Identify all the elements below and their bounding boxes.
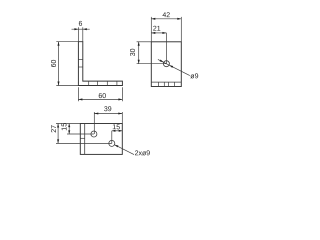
dim 6: left arrow (outside, points right) [74,28,78,30]
dim 30: extension line (bottom, through hole centre) [137,63,167,65]
svg-text:30: 30 [130,48,137,56]
rib tick (horizontal leg) [116,81,118,85]
dim 21: right arrow [162,32,166,34]
leader 2xø9: line [114,145,134,155]
dim 27: extension line (bottom, through right hole centre) [56,142,112,144]
svg-text:42: 42 [162,12,170,19]
svg-text:60: 60 [51,60,58,68]
svg-text:15: 15 [61,123,68,131]
dim 27: dimension line [57,124,59,144]
rib tick (horizontal leg) [88,81,90,85]
dim 6: extension lines [77,27,79,41]
dim 39: right arrow [118,112,122,114]
svg-text:15: 15 [112,124,120,131]
svg-text:27: 27 [51,125,58,133]
dim 15 (left): bottom arrow [68,130,70,134]
dim 15 (left): extension line through left hole [67,133,94,135]
leader ø9 (front): line through hole [158,59,190,75]
leader ø9: lower-right arrow [169,65,173,68]
dim 42: right arrow [177,18,181,20]
dim 60 (bottom): left arrow [78,98,82,100]
dim 15 (right): right arrow [119,130,123,132]
front rib tick [173,82,175,86]
dim 39: extension line (left, through left hole) [93,112,95,134]
flange rib tick [80,137,84,139]
dim 60 (left): bottom arrow [57,82,59,86]
svg-text:2xø9: 2xø9 [135,150,151,157]
leader ø9: upper-left arrow [160,60,164,63]
dim 60 (bottom): dimension line [78,98,122,100]
dim 15 (right): extension line down through hole [111,131,113,144]
rib tick (horizontal leg) [106,81,108,85]
front rib tick [163,82,165,86]
rib tick (vertical leg) [78,59,82,61]
dim 21: left arrow [151,32,155,34]
hole ø9 (right) [109,140,115,146]
dim 27: extension line (top) [56,123,80,125]
dim 60 (left): extension lines [56,41,78,43]
dim 15 (right): left arrow [112,130,116,132]
dim 42: left arrow [151,18,155,20]
dim 60 (left): top arrow [57,42,59,46]
dim 39: dimension line [94,113,122,115]
svg-text:21: 21 [153,26,161,33]
rib tick (horizontal leg) [97,81,99,85]
dim 60 (left): dimension line [58,42,60,86]
dim 21: dimension line [151,32,166,34]
svg-text:39: 39 [104,106,112,113]
dim 60 (bottom): extension lines [77,87,79,101]
base plate rectangle [80,124,122,155]
dim 39: left arrow [94,112,98,114]
dim 21: extension line down to hole centre [165,33,167,64]
dim 15 (left): top arrow [68,124,70,128]
upturned flange inner line [84,124,86,155]
front rib tick [157,82,159,86]
dim 30: extension line (top, from plate edge) [137,41,152,43]
hole ø9 (front) [163,61,169,67]
dim 60 (bottom): right arrow [118,98,122,100]
dim 15 (left): dimension line [68,124,70,135]
svg-text:6: 6 [78,21,82,28]
front rib tick [168,82,170,86]
dim 30: dimension line [138,42,140,64]
svg-text:ø9: ø9 [190,73,198,80]
leader 2xø9: arrow at hole [114,145,118,148]
svg-text:60: 60 [98,93,106,100]
front plate rectangle [151,42,181,87]
dim 30: bottom arrow [138,60,140,64]
L-profile outline [78,42,122,86]
dim 42: dimension line [151,18,181,20]
dim 42: extension lines [150,17,152,42]
dim 6: dimension line [72,28,90,30]
dim 30: top arrow [138,42,140,46]
dim 39: extension line (right) [121,112,123,124]
rib tick (vertical leg) [78,66,82,68]
dim 27: bottom arrow [57,139,59,143]
dim 15 (right): dimension line [112,130,123,132]
dim 6: right arrow (outside, points left) [83,28,87,30]
hole ø9 (left) [91,131,97,137]
dim 27: top arrow [57,124,59,128]
front: inner fold line [151,81,181,83]
